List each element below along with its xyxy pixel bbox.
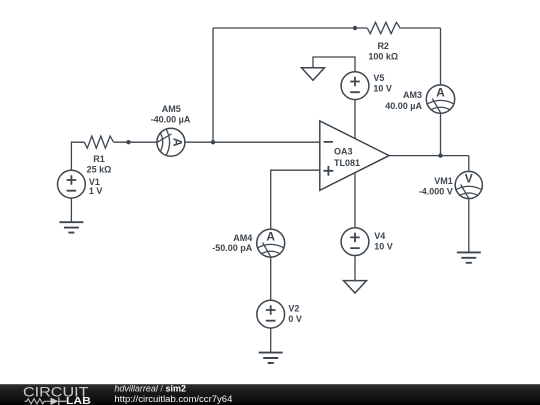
svg-text:AM4: AM4 <box>233 233 252 243</box>
op-amp OA3 <box>320 121 389 190</box>
svg-text:V4: V4 <box>374 231 385 241</box>
voltage source V5 <box>341 72 369 100</box>
ground flag near V5 <box>302 68 325 81</box>
node output junction <box>438 153 442 157</box>
wire output node down to VM1 <box>468 156 470 172</box>
wire V4 to triangle ground <box>354 256 356 281</box>
svg-text:25 kΩ: 25 kΩ <box>87 164 112 174</box>
svg-text:OA3: OA3 <box>334 147 353 157</box>
svg-text:R1: R1 <box>93 154 105 164</box>
wire V5 to op-amp top <box>354 100 356 139</box>
svg-text:A: A <box>170 138 184 147</box>
svg-text:R2: R2 <box>377 41 389 51</box>
resistor R1 <box>84 136 113 148</box>
svg-text:-50.00 pA: -50.00 pA <box>212 243 253 253</box>
svg-text:AM3: AM3 <box>403 90 422 100</box>
wire left feedback vertical <box>212 28 214 142</box>
wire op-amp output <box>389 155 469 157</box>
wire AM4 to V2 <box>270 257 272 300</box>
ammeter AM5 <box>157 128 185 156</box>
svg-text:V: V <box>465 172 473 186</box>
svg-text:V5: V5 <box>373 73 384 83</box>
svg-text:A: A <box>266 230 275 244</box>
voltage source V1 <box>58 170 86 198</box>
node junction R1-AM5 <box>126 140 130 144</box>
wire AM5 to op-amp minus input <box>185 141 320 143</box>
wire V5 top bend to flag ground <box>313 57 355 72</box>
ammeter AM3 <box>426 85 454 113</box>
svg-text:1 V: 1 V <box>89 186 103 196</box>
logo resistor zigzag <box>25 399 51 404</box>
svg-text:TL081: TL081 <box>334 158 360 168</box>
voltmeter VM1 <box>455 171 482 198</box>
wire top feedback horizontal right part <box>400 27 441 29</box>
resistor R2 <box>367 22 400 33</box>
wire V1 top to R1 <box>71 142 84 170</box>
node junction feedback-input <box>211 140 215 144</box>
voltage source V4 <box>341 228 369 256</box>
ground below V1 <box>59 222 83 232</box>
svg-text:0 V: 0 V <box>288 314 302 324</box>
svg-text:AM5: AM5 <box>162 104 181 114</box>
wire op-amp bottom to V4 <box>354 173 356 228</box>
svg-text:A: A <box>436 86 445 100</box>
svg-text:10 V: 10 V <box>374 242 393 252</box>
svg-text:100 kΩ: 100 kΩ <box>368 51 398 61</box>
ground triangle below V4 <box>344 281 367 293</box>
wire AM4 up and right to op-amp plus input <box>271 170 320 229</box>
svg-text:-40.00 µA: -40.00 µA <box>151 115 191 125</box>
svg-text:LAB: LAB <box>66 396 91 405</box>
svg-text:VM1: VM1 <box>434 176 453 186</box>
voltage source V2 <box>257 300 285 328</box>
ammeter AM4 <box>257 229 285 257</box>
node top wire joint <box>353 26 357 30</box>
logo diode <box>51 398 59 405</box>
ground below VM1 <box>457 252 481 262</box>
wire V1 bottom to ground <box>70 198 72 222</box>
svg-text:hdvillarreal / sim2: hdvillarreal / sim2 <box>114 384 186 394</box>
wire R1 to AM5 <box>114 141 157 143</box>
svg-text:-4.000 V: -4.000 V <box>419 186 453 196</box>
wire top feedback horizontal left part <box>213 27 367 29</box>
wire V2 to ground <box>270 328 272 352</box>
svg-text:V2: V2 <box>288 304 299 314</box>
svg-text:40.00 µA: 40.00 µA <box>385 101 422 111</box>
wire VM1 to ground <box>468 199 470 253</box>
ground below V2 <box>259 353 283 363</box>
svg-text:10 V: 10 V <box>373 84 392 94</box>
svg-text:http://circuitlab.com/ccr7y64: http://circuitlab.com/ccr7y64 <box>114 394 232 404</box>
wire AM3 bottom to output node <box>440 113 442 155</box>
footer bar <box>0 384 540 405</box>
wire right vertical down to AM3 <box>440 28 442 85</box>
